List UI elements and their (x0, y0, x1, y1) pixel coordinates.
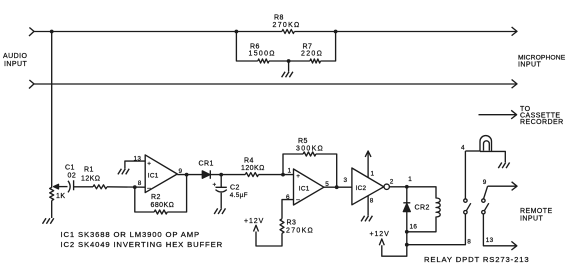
svg-text:8: 8 (467, 238, 471, 245)
node junction bottom rail (405, 243, 409, 247)
wire node16 down to bottom rail (406, 232, 408, 245)
wire down to +12V branch (382, 245, 407, 257)
svg-text:R8: R8 (274, 14, 284, 21)
svg-text:680KΩ: 680KΩ (151, 202, 175, 209)
svg-text:–: – (147, 185, 151, 192)
wire arrow to cassette recorder (479, 114, 516, 116)
node junction top line to pot (50, 30, 54, 34)
wire branch down to R6 (236, 32, 257, 62)
node junction top line right of R7 branch (334, 30, 338, 34)
svg-text:+12V: +12V (244, 218, 264, 225)
lamp bulb outline (480, 136, 492, 152)
arrowhead remote input lower (511, 241, 516, 250)
svg-text:CR2: CR2 (415, 204, 430, 211)
ground below C2 (214, 208, 225, 214)
arrowhead to cassette recorder (511, 110, 516, 119)
svg-text:4: 4 (461, 145, 465, 152)
wire pin9 down to contact (484, 186, 488, 199)
wire node down to CR2 (406, 187, 408, 203)
switch pole B lower contact (482, 211, 485, 214)
ground at IC1 pin13 (118, 169, 129, 175)
svg-text:1: 1 (371, 171, 375, 178)
node junction relay pin1 (405, 185, 409, 189)
inverter bubble IC2 output (384, 184, 389, 189)
svg-text:9: 9 (179, 168, 183, 175)
svg-text:IC1: IC1 (148, 172, 159, 179)
svg-text:INPUT: INPUT (4, 61, 28, 68)
svg-text:+: + (147, 161, 151, 168)
wire R1 to IC1 pin 8 (107, 186, 145, 188)
resistor R8 (282, 30, 294, 34)
arrowhead +12V first (254, 225, 259, 231)
switch pole B armature (484, 203, 489, 211)
svg-text:R1: R1 (84, 167, 94, 174)
pot wiper arrow (54, 184, 59, 189)
ground lamp (498, 163, 509, 169)
arrowhead microphone line 1 (512, 27, 517, 36)
wire IC2 output to relay node (389, 186, 406, 188)
wire down to C2 (220, 175, 222, 188)
diode CR2 (403, 203, 410, 212)
arrowhead microphone line 2 (512, 80, 517, 89)
op-amp IC1 first stage (145, 155, 177, 193)
relay coil K1 (407, 187, 440, 232)
wire lamp to ground (480, 151, 505, 162)
svg-text:R7: R7 (303, 43, 313, 50)
wire IC2 pin1 up to arrow (367, 152, 369, 178)
wire IC1 pin13 to ground (125, 161, 145, 169)
capacitor C1 (68, 180, 74, 192)
wire R4 to IC1b pin1 (259, 174, 295, 176)
svg-text:8: 8 (138, 180, 142, 187)
svg-text:INPUT: INPUT (518, 62, 542, 69)
svg-text:300KΩ: 300KΩ (296, 145, 324, 152)
svg-text:5: 5 (325, 181, 329, 188)
svg-text:1500Ω: 1500Ω (249, 51, 276, 58)
svg-text:MICROPHONE: MICROPHONE (518, 54, 566, 61)
op-amp IC1 second stage (294, 169, 324, 205)
node junction pin8 R2 (133, 185, 137, 189)
svg-text:9: 9 (483, 179, 487, 186)
svg-text:8: 8 (370, 198, 374, 205)
svg-text:+: + (213, 181, 217, 188)
lamp filament loop (484, 141, 490, 151)
wire R7 up to top line (321, 32, 336, 62)
ground below IC2 (361, 216, 372, 222)
wire IC1b output to IC2 (324, 186, 352, 188)
svg-text:12KΩ: 12KΩ (81, 176, 101, 183)
resistor R3 (280, 219, 284, 234)
svg-text:R3: R3 (287, 220, 297, 227)
svg-text:–: – (296, 196, 300, 203)
wire ground stem R6R7 (288, 61, 290, 72)
wire pin9 corner to arrow (488, 182, 517, 191)
wire vertical from top line down to pot (51, 32, 53, 188)
resistor R6 (258, 59, 269, 63)
wire R3 to +12V arrow (256, 232, 282, 247)
buffer IC2 (352, 168, 384, 205)
svg-text:IC1 SK3688 OR LM3900 OP AMP: IC1 SK3688 OR LM3900 OP AMP (61, 230, 200, 239)
connector chevron top audio line (29, 28, 34, 37)
wire bottom rail to switch pin8 (407, 214, 466, 245)
resistor R1 (93, 185, 107, 189)
svg-text:120KΩ: 120KΩ (241, 165, 265, 172)
svg-text:C2: C2 (230, 185, 240, 192)
node junction output R2 (185, 173, 189, 177)
node junction pin16 (405, 230, 409, 234)
node junction R6 R7 ground (287, 59, 291, 63)
wire CR1 to R4 (210, 174, 245, 176)
wire pin4 up to lamp (464, 151, 466, 199)
resistor R4 (245, 173, 258, 177)
ground below pot (43, 218, 54, 224)
node junction IC1b output (335, 185, 339, 189)
wire IC1 output to CR1 (177, 174, 202, 176)
wire lamp base (465, 150, 480, 152)
potentiometer 1K body (50, 187, 54, 200)
svg-text:4.5µF: 4.5µF (230, 192, 248, 199)
switch pole A lower contact (464, 211, 467, 214)
svg-text:6: 6 (286, 194, 290, 201)
resistor R5 (303, 152, 316, 156)
svg-text:R4: R4 (244, 158, 254, 165)
wire R5 down to output (316, 154, 337, 187)
wire IC1b pin6 to R3 (282, 200, 294, 219)
svg-text:R2: R2 (151, 194, 161, 201)
resistor R7 (310, 59, 321, 63)
wire CR2 to node 16 (406, 212, 408, 232)
svg-text:13: 13 (486, 237, 494, 244)
svg-text:270KΩ: 270KΩ (273, 22, 301, 29)
wire pot to ground (51, 201, 53, 219)
svg-text:IC2 SK4049 INVERTING HEX BUFFE: IC2 SK4049 INVERTING HEX BUFFER (61, 240, 224, 249)
wire R6 to R7 (269, 60, 310, 62)
svg-text:1: 1 (408, 176, 412, 183)
svg-text:13: 13 (134, 155, 142, 162)
svg-text:R5: R5 (298, 138, 308, 145)
svg-text:AUDIO: AUDIO (3, 53, 28, 60)
wire top audio line right of R8 (294, 31, 516, 33)
node junction pin1 R5 (281, 173, 285, 177)
wire R2 feedback loop (135, 187, 154, 212)
diode CR1 (202, 171, 210, 178)
svg-text:1K: 1K (56, 193, 65, 200)
svg-text:INPUT: INPUT (520, 215, 544, 222)
wire IC2 pin8 to ground (367, 196, 369, 216)
svg-text:R6: R6 (250, 43, 260, 50)
wire top audio line left of R8 (34, 31, 282, 33)
wire wiper to C1 (58, 186, 68, 188)
svg-text:C1: C1 (65, 165, 75, 172)
svg-text:2: 2 (390, 178, 394, 185)
wire C2 to ground (220, 193, 222, 208)
svg-text:IC2: IC2 (356, 185, 367, 192)
switch pole B upper contact (482, 199, 485, 202)
svg-text:220Ω: 220Ω (301, 51, 323, 58)
capacitor C2 (216, 187, 227, 192)
svg-text:1: 1 (288, 167, 292, 174)
wire R2 up to output (167, 175, 186, 212)
svg-text:CR1: CR1 (199, 161, 214, 168)
node junction top line left of R6 branch (235, 30, 239, 34)
arrowhead +12V second (379, 239, 384, 245)
svg-text:+: + (296, 173, 300, 180)
wire pin13 down and right to arrow (483, 214, 515, 246)
wire C1 to R1 (74, 186, 93, 188)
svg-text:RECORDER: RECORDER (520, 119, 564, 126)
ground at R6 R7 junction (282, 72, 293, 78)
svg-text:16: 16 (410, 224, 418, 231)
svg-text:02: 02 (68, 173, 77, 180)
svg-text:REMOTE: REMOTE (520, 208, 553, 215)
svg-text:3: 3 (344, 177, 348, 184)
svg-text:RELAY DPDT RS273-213: RELAY DPDT RS273-213 (424, 255, 529, 264)
node junction CR1 C2 (219, 173, 223, 177)
resistor R2 (154, 210, 167, 214)
switch pole A armature (466, 203, 471, 211)
arrowhead IC2 supply (365, 151, 371, 157)
switch pole A upper contact (464, 199, 467, 202)
svg-text:+12V: +12V (370, 231, 390, 238)
connector chevron second audio line (29, 80, 34, 89)
wire R5 feedback loop (283, 154, 303, 175)
svg-text:IC1: IC1 (299, 185, 310, 192)
wire second audio line (34, 83, 516, 85)
svg-text:270KΩ: 270KΩ (286, 227, 314, 234)
